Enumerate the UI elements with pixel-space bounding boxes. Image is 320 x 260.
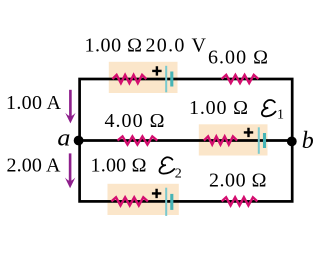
svg-text:1.00 A: 1.00 A xyxy=(6,92,62,114)
svg-text:1: 1 xyxy=(277,107,284,122)
svg-text:2.00 A: 2.00 A xyxy=(7,155,62,177)
svg-text:4.00 Ω: 4.00 Ω xyxy=(105,110,165,132)
svg-text:2.00 Ω: 2.00 Ω xyxy=(209,169,267,191)
svg-text:1.00 Ω: 1.00 Ω xyxy=(189,97,248,119)
svg-text:1.00 Ω: 1.00 Ω xyxy=(91,155,147,177)
svg-text:1.00 Ω: 1.00 Ω xyxy=(85,35,143,57)
svg-text:6.00 Ω: 6.00 Ω xyxy=(208,47,268,69)
svg-text:b: b xyxy=(302,128,314,154)
svg-text:2: 2 xyxy=(175,167,182,182)
svg-text:a: a xyxy=(57,125,70,151)
svg-text:20.0 V: 20.0 V xyxy=(146,35,207,57)
